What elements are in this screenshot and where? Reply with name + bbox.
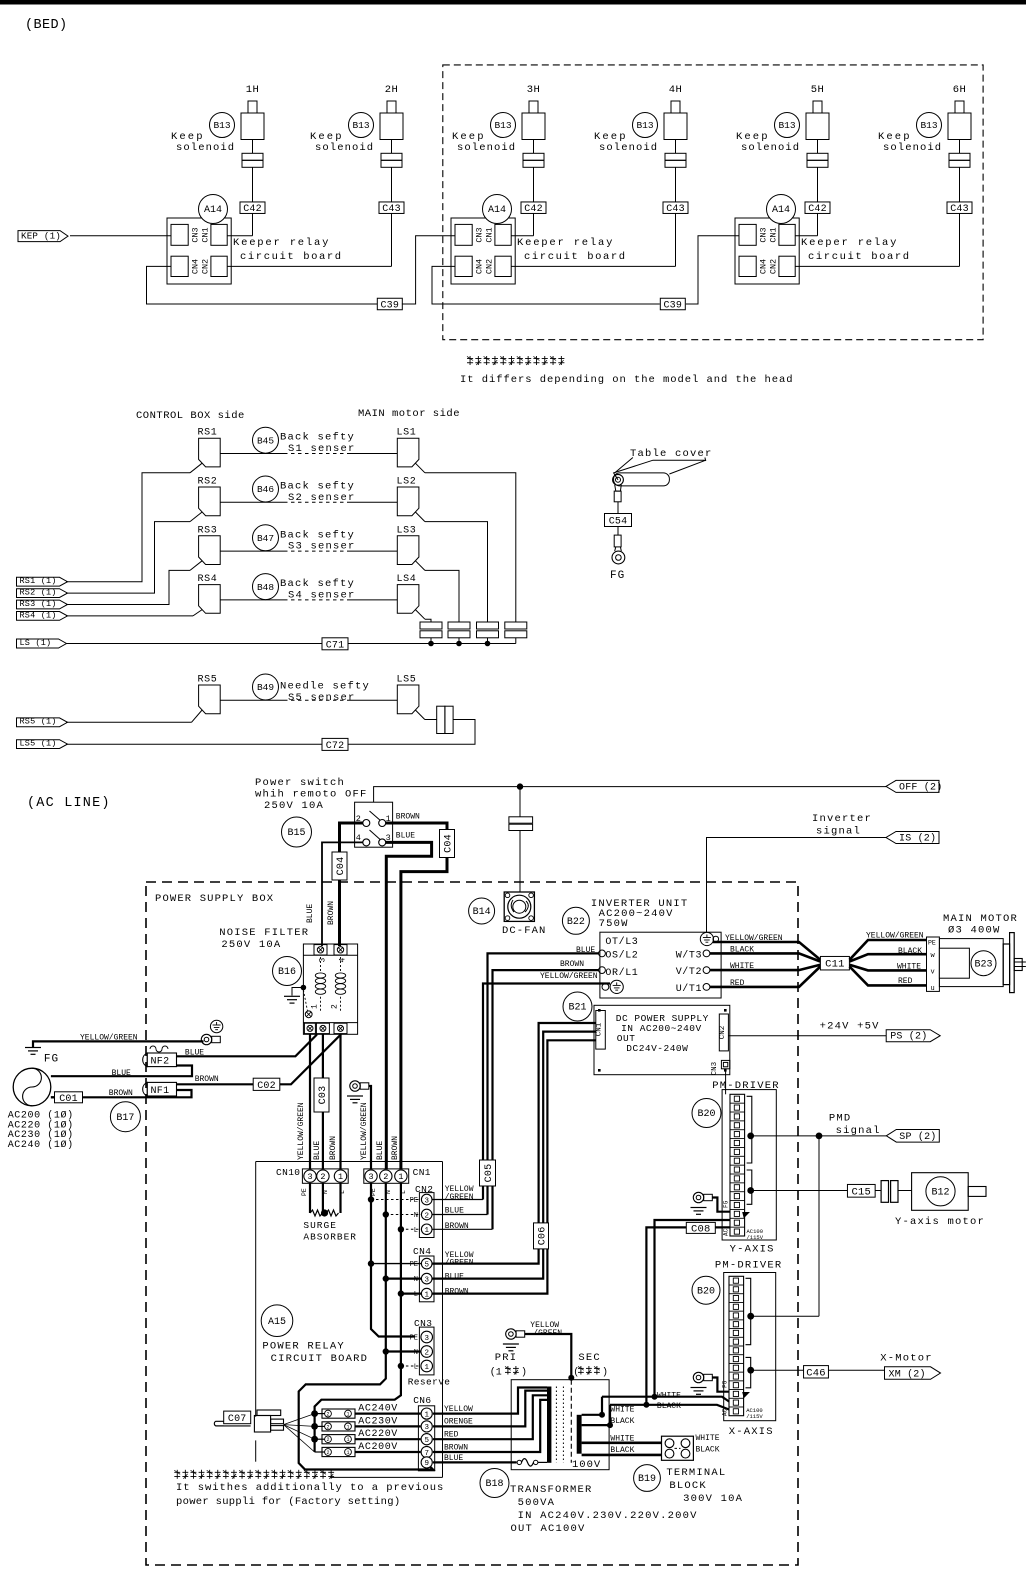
svg-text:2: 2 xyxy=(356,814,361,824)
svg-text:solenoid: solenoid xyxy=(883,142,942,154)
svg-text:1: 1 xyxy=(386,814,391,824)
svg-text:B13: B13 xyxy=(920,120,937,131)
svg-text:CN2: CN2 xyxy=(201,259,211,274)
svg-text:CN10: CN10 xyxy=(276,1167,300,1178)
svg-text:S3 senser: S3 senser xyxy=(288,541,356,553)
svg-text:3H: 3H xyxy=(527,84,541,96)
svg-text:B20: B20 xyxy=(697,1286,715,1297)
svg-text:750W: 750W xyxy=(599,918,629,930)
svg-text:CN1: CN1 xyxy=(413,1167,431,1178)
svg-text:solenoid: solenoid xyxy=(599,142,658,154)
svg-text:solenoid: solenoid xyxy=(176,142,235,154)
svg-text:/115V: /115V xyxy=(747,1234,764,1241)
svg-text:X-AXIS: X-AXIS xyxy=(729,1426,774,1438)
svg-text:(BED): (BED) xyxy=(25,18,68,33)
svg-text:C72: C72 xyxy=(326,741,345,752)
svg-text:Back sefty: Back sefty xyxy=(280,578,355,590)
svg-text:B16: B16 xyxy=(278,967,296,978)
svg-text:WHITE: WHITE xyxy=(897,963,921,972)
svg-text:C06: C06 xyxy=(538,1227,549,1246)
svg-text:B14: B14 xyxy=(473,907,491,918)
svg-text:solenoid: solenoid xyxy=(315,142,374,154)
svg-text:C03: C03 xyxy=(318,1086,329,1105)
svg-text:FG: FG xyxy=(44,1054,59,1066)
svg-text:C71: C71 xyxy=(326,640,345,651)
svg-text:solenoid: solenoid xyxy=(741,142,800,154)
svg-text:3: 3 xyxy=(424,1424,429,1432)
svg-text:v: v xyxy=(931,969,935,977)
svg-text:It differs depending on the mo: It differs depending on the model and th… xyxy=(460,374,794,386)
svg-text:POWER RELAY: POWER RELAY xyxy=(262,1341,345,1353)
svg-text:BLACK: BLACK xyxy=(610,1417,634,1426)
svg-text:TERMINAL: TERMINAL xyxy=(666,1467,726,1479)
svg-text:W/T3: W/T3 xyxy=(676,949,702,961)
svg-text:3: 3 xyxy=(368,1172,373,1182)
svg-text:2: 2 xyxy=(326,1450,329,1456)
svg-text:1: 1 xyxy=(346,1424,349,1430)
svg-text:Back sefty: Back sefty xyxy=(280,432,355,444)
svg-text:YELLOW/GREEN: YELLOW/GREEN xyxy=(297,1102,306,1160)
svg-text:N: N xyxy=(414,1212,418,1220)
svg-text:OFF (2): OFF (2) xyxy=(899,781,942,793)
svg-text:5H: 5H xyxy=(811,84,825,96)
svg-text:2: 2 xyxy=(424,1212,429,1220)
svg-text:PMD: PMD xyxy=(829,1113,852,1125)
svg-text:FG: FG xyxy=(610,570,625,582)
svg-text:(1: (1 xyxy=(490,1367,502,1379)
svg-text:RS2: RS2 xyxy=(198,477,218,488)
svg-text:B22: B22 xyxy=(567,917,585,928)
svg-text:1: 1 xyxy=(398,1172,403,1182)
svg-text:250V 10A: 250V 10A xyxy=(221,939,281,951)
svg-text:BROWN: BROWN xyxy=(396,813,420,822)
svg-text:Ø3 400W: Ø3 400W xyxy=(948,925,1001,937)
svg-text:B13: B13 xyxy=(352,120,369,131)
svg-text:CN3: CN3 xyxy=(759,227,769,242)
svg-text:B15: B15 xyxy=(287,828,305,839)
svg-text:1: 1 xyxy=(346,1450,349,1456)
svg-text:1: 1 xyxy=(346,1437,349,1443)
svg-text:Y-axis motor: Y-axis motor xyxy=(895,1216,985,1228)
svg-text:KEP (1): KEP (1) xyxy=(21,231,61,242)
svg-text:RS4 (1): RS4 (1) xyxy=(20,610,57,620)
svg-text:Inverter: Inverter xyxy=(812,813,872,825)
svg-text:C04: C04 xyxy=(336,857,347,876)
svg-text:BLACK: BLACK xyxy=(657,1402,681,1411)
svg-text:circuit board: circuit board xyxy=(240,251,343,263)
svg-text:BLUE: BLUE xyxy=(445,1273,464,1282)
svg-text:U/T1: U/T1 xyxy=(676,983,702,995)
svg-text:Keeper relay: Keeper relay xyxy=(233,237,330,249)
svg-text:WHITE: WHITE xyxy=(610,1406,634,1415)
svg-text:POWER SUPPLY BOX: POWER SUPPLY BOX xyxy=(155,893,274,905)
svg-text:MAIN motor side: MAIN motor side xyxy=(358,408,460,420)
svg-text:/115V: /115V xyxy=(746,1413,763,1420)
svg-text:AC: AC xyxy=(722,1408,729,1416)
svg-text:1: 1 xyxy=(311,1004,320,1009)
svg-text:YELLOW/GREEN: YELLOW/GREEN xyxy=(360,1102,369,1160)
svg-text:Table cover: Table cover xyxy=(630,448,713,460)
svg-text:300V 10A: 300V 10A xyxy=(683,1493,743,1505)
svg-text:DC24V-240W: DC24V-240W xyxy=(626,1043,688,1054)
svg-text:FG: FG xyxy=(723,1200,730,1208)
svg-text:ABSORBER: ABSORBER xyxy=(303,1232,357,1243)
svg-text:signal: signal xyxy=(816,826,861,838)
svg-text:Back sefty: Back sefty xyxy=(280,529,355,541)
svg-text:RS2 (1): RS2 (1) xyxy=(20,588,57,598)
svg-text:YELLOW/GREEN: YELLOW/GREEN xyxy=(866,931,924,940)
svg-text:N: N xyxy=(414,1276,418,1284)
svg-text:A14: A14 xyxy=(488,205,506,216)
svg-text:C15: C15 xyxy=(852,1186,872,1198)
svg-text:LS3: LS3 xyxy=(397,525,417,536)
svg-text:B13: B13 xyxy=(636,120,653,131)
svg-text:C08: C08 xyxy=(691,1223,711,1235)
svg-text:5: 5 xyxy=(424,1437,429,1445)
svg-text:IN AC240V.230V.220V.200V: IN AC240V.230V.220V.200V xyxy=(518,1510,698,1522)
svg-text:3: 3 xyxy=(424,1276,429,1284)
svg-text:C11: C11 xyxy=(825,959,845,971)
svg-text:100V: 100V xyxy=(572,1459,601,1471)
svg-text:Back sefty: Back sefty xyxy=(280,481,355,493)
svg-text:A15: A15 xyxy=(268,1317,286,1328)
svg-text:PE: PE xyxy=(928,940,936,947)
svg-text:2: 2 xyxy=(331,1004,340,1009)
svg-text:C39: C39 xyxy=(380,301,399,312)
svg-text:2H: 2H xyxy=(385,84,399,96)
svg-text:WHITE: WHITE xyxy=(730,962,754,971)
svg-text:3: 3 xyxy=(386,833,391,843)
svg-text:+24V +5V: +24V +5V xyxy=(820,1021,880,1033)
svg-text:LS (1): LS (1) xyxy=(20,638,52,648)
svg-text:B46: B46 xyxy=(257,484,274,495)
svg-text:BROWN: BROWN xyxy=(195,1075,219,1084)
svg-text:A14: A14 xyxy=(204,205,222,216)
svg-text:BLACK: BLACK xyxy=(898,947,922,956)
svg-text:CN2: CN2 xyxy=(485,259,495,274)
svg-text:RS5: RS5 xyxy=(198,675,218,686)
svg-text:BLUE: BLUE xyxy=(396,832,415,841)
svg-text:solenoid: solenoid xyxy=(457,142,516,154)
svg-text:RS4: RS4 xyxy=(198,574,218,585)
svg-text:signal: signal xyxy=(836,1125,881,1137)
svg-text:CN1: CN1 xyxy=(485,227,495,242)
svg-text:RS3: RS3 xyxy=(198,525,218,536)
svg-text:CN2: CN2 xyxy=(415,1184,433,1195)
svg-text:SP (2): SP (2) xyxy=(899,1131,936,1143)
svg-text:LS5 (1): LS5 (1) xyxy=(20,739,57,749)
svg-text:2: 2 xyxy=(326,1424,329,1430)
svg-text:OR/L1: OR/L1 xyxy=(605,967,638,979)
svg-text:Keeper relay: Keeper relay xyxy=(517,237,614,249)
svg-text:): ) xyxy=(521,1367,527,1379)
svg-text:SEC: SEC xyxy=(578,1352,601,1364)
svg-text:2: 2 xyxy=(326,1412,329,1418)
svg-text:PE: PE xyxy=(410,1261,418,1269)
svg-text:BROWN: BROWN xyxy=(329,1136,338,1160)
svg-text:BROWN: BROWN xyxy=(391,1136,400,1160)
svg-text:PS (2): PS (2) xyxy=(890,1031,927,1043)
svg-text:OS/L2: OS/L2 xyxy=(605,949,638,961)
svg-text:IS (2): IS (2) xyxy=(899,833,936,845)
svg-text:BLOCK: BLOCK xyxy=(669,1480,707,1492)
svg-text:YELLOW/GREEN: YELLOW/GREEN xyxy=(80,1033,138,1042)
svg-text:CN1: CN1 xyxy=(769,227,779,242)
svg-text:4H: 4H xyxy=(669,84,683,96)
svg-text:OUT AC100V: OUT AC100V xyxy=(511,1523,586,1535)
svg-text:CN1: CN1 xyxy=(596,1022,604,1036)
svg-text:CN2: CN2 xyxy=(719,1026,727,1040)
svg-text:AC: AC xyxy=(723,1228,730,1236)
svg-text:AC240 (1Ø): AC240 (1Ø) xyxy=(8,1139,74,1151)
svg-text:CN1: CN1 xyxy=(201,227,211,242)
svg-text:BLUE: BLUE xyxy=(306,904,315,923)
svg-text:C46: C46 xyxy=(806,1367,826,1379)
svg-text:LS5: LS5 xyxy=(397,675,417,686)
svg-text:It swithes additionally to a p: It swithes additionally to a previous xyxy=(176,1482,444,1494)
svg-text:CIRCUIT BOARD: CIRCUIT BOARD xyxy=(271,1353,369,1365)
svg-text:NOISE FILTER: NOISE FILTER xyxy=(219,927,309,939)
svg-text:LS4: LS4 xyxy=(397,574,417,585)
svg-text:1: 1 xyxy=(338,1172,343,1182)
svg-text:S1 senser: S1 senser xyxy=(288,443,356,455)
svg-text:3: 3 xyxy=(319,958,328,963)
svg-text:LS2: LS2 xyxy=(397,477,417,488)
svg-text:circuit board: circuit board xyxy=(524,251,627,263)
svg-text:1: 1 xyxy=(424,1291,429,1299)
svg-text:YELLOW/GREEN: YELLOW/GREEN xyxy=(725,934,783,943)
svg-text:SURGE: SURGE xyxy=(303,1220,337,1231)
svg-text:circuit board: circuit board xyxy=(808,251,911,263)
svg-text:/GREEN: /GREEN xyxy=(445,1259,474,1268)
svg-text:NF1: NF1 xyxy=(151,1086,170,1097)
svg-text:B47: B47 xyxy=(257,533,274,544)
svg-text:9: 9 xyxy=(424,1460,429,1468)
svg-text:Power switch: Power switch xyxy=(255,777,345,789)
svg-text:2: 2 xyxy=(383,1172,388,1182)
svg-text:RS3 (1): RS3 (1) xyxy=(20,599,57,609)
svg-text:Keeper relay: Keeper relay xyxy=(801,237,898,249)
svg-text:YELLOW/GREEN: YELLOW/GREEN xyxy=(540,972,598,981)
svg-text:BLACK: BLACK xyxy=(730,945,754,954)
svg-text:RS1: RS1 xyxy=(198,428,218,439)
svg-text:FG: FG xyxy=(722,1380,729,1388)
svg-text:CN4: CN4 xyxy=(475,259,485,274)
svg-text:WHITE: WHITE xyxy=(696,1434,720,1443)
svg-text:B13: B13 xyxy=(494,120,511,131)
svg-text:S2 senser: S2 senser xyxy=(288,492,356,504)
svg-text:Y-AXIS: Y-AXIS xyxy=(730,1244,775,1256)
svg-text:B17: B17 xyxy=(116,1113,134,1124)
svg-text:B18: B18 xyxy=(485,1479,503,1490)
svg-text:X-Motor: X-Motor xyxy=(880,1353,933,1365)
svg-text:S4 senser: S4 senser xyxy=(288,589,356,601)
svg-text:CN6: CN6 xyxy=(413,1395,431,1406)
svg-text:CN4: CN4 xyxy=(413,1246,431,1257)
svg-text:3: 3 xyxy=(424,1335,429,1343)
svg-text:Needle sefty: Needle sefty xyxy=(280,681,370,693)
svg-text:B19: B19 xyxy=(638,1474,656,1485)
svg-text:TRANSFORMER: TRANSFORMER xyxy=(510,1484,593,1496)
svg-text:power suppli for (Factory sett: power suppli for (Factory setting) xyxy=(176,1496,400,1508)
svg-text:CN3: CN3 xyxy=(191,227,201,242)
svg-text:BLUE: BLUE xyxy=(313,1141,322,1160)
svg-text:B13: B13 xyxy=(778,120,795,131)
svg-text:RS1 (1): RS1 (1) xyxy=(20,576,57,586)
svg-text:B48: B48 xyxy=(257,582,274,593)
svg-text:5: 5 xyxy=(424,1261,429,1269)
svg-text:MAIN MOTOR: MAIN MOTOR xyxy=(943,913,1018,925)
svg-text:B49: B49 xyxy=(257,682,274,693)
svg-text:1: 1 xyxy=(424,1364,429,1372)
svg-text:CN4: CN4 xyxy=(191,259,201,274)
svg-text:C01: C01 xyxy=(59,1094,78,1105)
svg-text:1: 1 xyxy=(424,1411,429,1419)
svg-text:4: 4 xyxy=(356,833,361,843)
svg-text:2: 2 xyxy=(424,1349,429,1357)
svg-text:PE: PE xyxy=(410,1197,418,1205)
svg-text:BROWN: BROWN xyxy=(445,1288,469,1297)
svg-text:/GREEN: /GREEN xyxy=(445,1193,474,1202)
svg-text:C04: C04 xyxy=(444,834,455,853)
svg-text:RED: RED xyxy=(730,979,745,988)
svg-text:L: L xyxy=(414,1291,418,1299)
svg-text:BROWN: BROWN xyxy=(560,960,584,969)
svg-text:NF2: NF2 xyxy=(151,1057,170,1068)
svg-text:DC-FAN: DC-FAN xyxy=(502,925,546,937)
svg-text:N: N xyxy=(414,1349,418,1357)
svg-text:B45: B45 xyxy=(257,435,274,446)
svg-text:u: u xyxy=(931,985,935,993)
svg-text:2: 2 xyxy=(326,1437,329,1443)
svg-text:BROWN: BROWN xyxy=(327,901,336,925)
svg-text:B23: B23 xyxy=(974,959,992,970)
svg-text:PM-DRIVER: PM-DRIVER xyxy=(715,1260,783,1272)
svg-text:250V 10A: 250V 10A xyxy=(264,800,324,812)
svg-text:L: L xyxy=(414,1364,418,1372)
svg-text:PRI: PRI xyxy=(495,1352,518,1364)
svg-text:6H: 6H xyxy=(953,84,967,96)
svg-text:B20: B20 xyxy=(697,1109,715,1120)
svg-text:BLACK: BLACK xyxy=(696,1446,720,1455)
svg-text:B21: B21 xyxy=(568,1003,586,1014)
svg-text:PE: PE xyxy=(301,1188,308,1196)
svg-text:CN3: CN3 xyxy=(711,1061,719,1075)
svg-text:CN3: CN3 xyxy=(475,227,485,242)
svg-text:whih remoto OFF: whih remoto OFF xyxy=(255,789,368,801)
svg-text:1H: 1H xyxy=(246,84,260,96)
svg-text:C02: C02 xyxy=(257,1081,276,1092)
svg-text:C07: C07 xyxy=(228,1414,247,1425)
svg-text:4: 4 xyxy=(339,958,348,963)
svg-text:3: 3 xyxy=(424,1197,429,1205)
svg-text:2: 2 xyxy=(320,1172,325,1182)
svg-text:OT/L3: OT/L3 xyxy=(605,936,638,948)
svg-text:XM (2): XM (2) xyxy=(889,1368,926,1380)
svg-text:Reserve: Reserve xyxy=(408,1377,451,1388)
svg-text:CONTROL BOX side: CONTROL BOX side xyxy=(136,410,245,422)
svg-text:CN2: CN2 xyxy=(769,259,779,274)
svg-text:C54: C54 xyxy=(609,517,628,528)
svg-text:C05: C05 xyxy=(484,1164,495,1183)
svg-text:BLUE: BLUE xyxy=(376,1141,385,1160)
svg-text:1: 1 xyxy=(424,1227,429,1235)
svg-text:L: L xyxy=(414,1227,418,1235)
svg-text:V/T2: V/T2 xyxy=(676,966,702,978)
svg-text:A14: A14 xyxy=(772,205,790,216)
svg-text:B13: B13 xyxy=(213,120,230,131)
svg-text:(AC LINE): (AC LINE) xyxy=(27,796,111,811)
svg-text:LS1: LS1 xyxy=(397,428,417,439)
svg-text:S5 senser: S5 senser xyxy=(288,692,356,704)
svg-text:): ) xyxy=(602,1367,608,1379)
svg-text:RED: RED xyxy=(898,977,913,986)
svg-text:C39: C39 xyxy=(663,301,682,312)
svg-text:3: 3 xyxy=(307,1172,312,1182)
svg-text:500VA: 500VA xyxy=(518,1497,556,1509)
svg-text:1: 1 xyxy=(346,1412,349,1418)
svg-text:RS5 (1): RS5 (1) xyxy=(20,717,57,727)
svg-text:B12: B12 xyxy=(931,1188,949,1199)
svg-text:CN4: CN4 xyxy=(759,259,769,274)
